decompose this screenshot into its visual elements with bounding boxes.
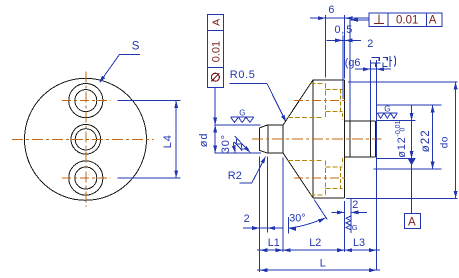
surface mark G above pilot xyxy=(231,116,254,118)
dimension L1 L2 L3 line xyxy=(257,249,380,251)
side view: pilot bottom edge xyxy=(268,152,283,154)
side view: flange right face xyxy=(344,80,346,198)
left view: flange outer circle xyxy=(25,78,147,200)
side view: cone top edge 30 deg xyxy=(283,80,313,125)
dimension L4 line xyxy=(175,101,177,178)
dimension do extension lines xyxy=(348,81,457,83)
svg-text:G: G xyxy=(239,109,245,118)
left view: bottom hole centerline xyxy=(62,177,111,179)
left view: top hole through circle xyxy=(75,90,97,112)
side view: g6 groove line xyxy=(369,121,371,157)
g6 left extension line xyxy=(369,60,371,121)
svg-text:G: G xyxy=(384,105,390,114)
upper taper surface mark teeth xyxy=(234,138,247,152)
svg-text:L2: L2 xyxy=(309,237,321,249)
hidden line: top hole thread line xyxy=(340,89,342,111)
svg-text:,: , xyxy=(341,24,344,36)
svg-text:30°: 30° xyxy=(220,134,232,153)
hidden line: top hole face relief xyxy=(341,113,343,120)
side view: cylinder left shoulder xyxy=(349,121,351,157)
left view: top hole centerline xyxy=(62,100,111,102)
dimension 6 extension lines xyxy=(324,15,326,77)
svg-text:(g6: (g6 xyxy=(345,57,361,69)
svg-text:ød: ød xyxy=(198,133,210,147)
dimension L4 extension lines xyxy=(118,100,181,102)
30 deg arc xyxy=(289,218,326,228)
FCF leader arrow xyxy=(350,19,369,21)
hidden line: top hole counterbore top wall xyxy=(311,82,326,84)
hidden line: bottom hole face relief xyxy=(341,158,343,165)
hidden line: top hole counterbore step xyxy=(324,83,326,117)
svg-text:2: 2 xyxy=(244,213,250,225)
side view: flange top edge xyxy=(313,79,345,81)
side view: top hole centerline xyxy=(294,99,348,101)
30 deg vertical reference xyxy=(287,217,289,234)
svg-text:do: do xyxy=(439,136,450,148)
FCF diameter symbol xyxy=(211,73,219,81)
svg-text:6: 6 xyxy=(328,4,334,16)
svg-text:L4: L4 xyxy=(162,134,174,148)
side view: flange bottom edge xyxy=(313,197,345,199)
side view: pilot top chamfer xyxy=(259,125,268,128)
side view: pilot bottom chamfer xyxy=(259,150,268,153)
svg-text:-0.01: -0.01 xyxy=(395,120,402,136)
dimension 2 g6 line xyxy=(355,68,391,70)
side view: bottom hole centerline xyxy=(294,177,348,179)
svg-text:G: G xyxy=(352,223,358,232)
dimension do line xyxy=(455,82,457,198)
taper start extension line xyxy=(282,158,284,253)
side view: pilot end step line xyxy=(282,125,284,153)
svg-text:L3: L3 xyxy=(353,237,365,249)
svg-text:L: L xyxy=(320,258,326,270)
left view: vertical centerline xyxy=(85,72,87,208)
svg-text:S: S xyxy=(132,41,140,53)
left view: bottom hole counterbore circle xyxy=(69,161,103,195)
taper extension diagonal xyxy=(314,200,327,220)
hidden line: bottom hole counterbore top wall xyxy=(288,160,323,162)
side view: cylinder top edge xyxy=(345,120,376,122)
dimension dia12 line with datum leader xyxy=(411,105,413,213)
svg-text:R0.5: R0.5 xyxy=(230,69,256,81)
svg-text:ø22: ø22 xyxy=(420,129,432,152)
svg-text:5: 5 xyxy=(346,24,352,36)
dimension dia22cb extension lines xyxy=(377,104,442,106)
leader for S xyxy=(120,53,140,55)
left view: middle pilot chamfer circle xyxy=(75,129,96,150)
side view: cone bottom edge 30 deg xyxy=(283,153,313,198)
dimension dia12 extension lines xyxy=(377,120,415,122)
hidden line: bottom hole thread line xyxy=(340,167,342,189)
hidden line: bottom hole counterbore bottom wall xyxy=(311,194,326,196)
datum A filled triangle xyxy=(407,158,416,166)
hidden line: bottom hole counterbore step xyxy=(324,161,326,196)
side view: pilot left end face xyxy=(258,128,260,150)
hidden line: top hole counterbore bottom wall xyxy=(288,117,323,119)
feature control frame perpendicularity 0.01 A (top right) xyxy=(369,13,442,27)
upper 30 deg arc and arrow xyxy=(234,143,236,153)
pilot left extension line xyxy=(259,157,261,273)
side view: main axis centerline xyxy=(252,138,382,140)
left view: top hole S counterbore circle xyxy=(69,84,103,118)
hidden line: top hole through top wall xyxy=(325,88,342,90)
svg-text:2: 2 xyxy=(352,199,358,211)
flange face extension line xyxy=(344,201,346,252)
dimension L line xyxy=(257,269,380,271)
side view: pilot top edge xyxy=(268,124,283,126)
hidden line: bottom hole through bottom wall xyxy=(325,188,342,190)
svg-text:A: A xyxy=(211,19,223,26)
side view: pilot chamfer line xyxy=(267,125,269,153)
svg-text:0.01: 0.01 xyxy=(396,15,418,27)
svg-text:2: 2 xyxy=(367,38,373,50)
g6 / L3 / L right extension line xyxy=(376,60,378,271)
hidden line: top hole through bottom wall xyxy=(325,111,342,113)
leader for R0.5 xyxy=(229,83,267,85)
cylinder face extension line up xyxy=(349,20,351,121)
side view: flange left face xyxy=(312,80,314,198)
dimension 0.5 extension line xyxy=(342,36,344,100)
surface mark G above cylinder xyxy=(377,112,397,114)
neck extension line with G mark xyxy=(350,199,352,233)
svg-text:R2: R2 xyxy=(228,170,242,182)
svg-text:0: 0 xyxy=(335,24,341,36)
chamfer extension line xyxy=(267,157,269,233)
datum A box xyxy=(404,213,420,228)
left view: horizontal centerline xyxy=(12,138,154,140)
feature control frame dia 0.01 A (left, rotated) xyxy=(207,15,223,88)
leader for R2 xyxy=(239,182,252,184)
dimension dia22 line xyxy=(432,105,434,169)
dimension 6 line xyxy=(310,17,369,19)
side view: cylinder bottom edge xyxy=(345,156,376,158)
side view: right end face xyxy=(374,121,376,157)
svg-text:A: A xyxy=(408,216,416,228)
svg-text:30°: 30° xyxy=(289,213,305,225)
svg-text:0.01: 0.01 xyxy=(210,41,222,62)
svg-text:ø12: ø12 xyxy=(396,136,408,157)
FCF leader / dim od line xyxy=(214,87,216,153)
svg-text:L1: L1 xyxy=(268,237,280,249)
dimension 0.5 line xyxy=(327,39,361,41)
perpendicularity symbol xyxy=(378,14,380,23)
upper taper reference diagonal xyxy=(235,136,251,153)
left view: bottom hole through circle xyxy=(75,167,97,189)
hidden line: bottom hole through top wall xyxy=(325,166,342,168)
dimension od extension lines xyxy=(215,124,260,126)
svg-text:A: A xyxy=(429,15,437,27)
left view: middle pilot boss circle xyxy=(71,125,101,155)
